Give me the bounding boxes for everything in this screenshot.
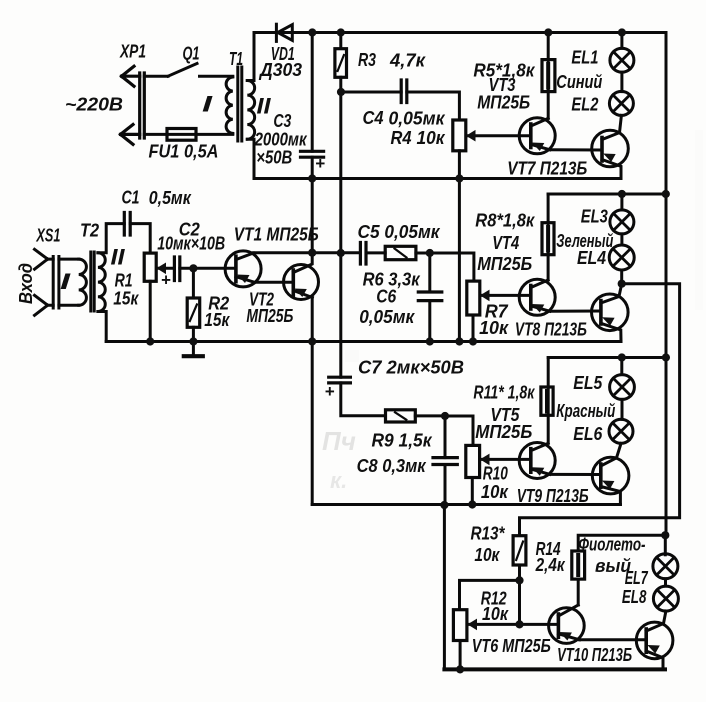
transistor VT2 <box>284 265 319 300</box>
emitter arrow VT5 <box>532 467 545 476</box>
capacitor C3 bottom lead <box>311 157 314 178</box>
wire violet feed from EL4 node <box>520 284 680 536</box>
wire channel3 top rail <box>548 356 666 359</box>
wire node92 to C4 <box>341 91 401 94</box>
svg-text:T1: T1 <box>229 49 243 69</box>
capacitor C1 <box>124 213 130 236</box>
transistor VT4 <box>519 279 555 315</box>
emitter arrow VT10 <box>647 645 660 654</box>
svg-text:Вход: Вход <box>16 263 36 304</box>
wire C7 to R9 <box>341 383 386 416</box>
wire XP1 to fuse <box>144 133 167 136</box>
transistor VT10 <box>636 622 673 659</box>
svg-text:С5 0,05мк: С5 0,05мк <box>358 222 441 242</box>
diode VD1 cathode bar <box>275 24 278 41</box>
svg-text:R3: R3 <box>358 50 376 70</box>
transformer T1 core <box>238 67 242 141</box>
transformer T1 primary winding <box>226 77 233 133</box>
resistor R2 lead <box>192 268 195 298</box>
potentiometer R7 <box>467 281 480 315</box>
svg-text:VT8 П213Б: VT8 П213Б <box>515 320 587 340</box>
svg-text:FU1 0,5А: FU1 0,5А <box>149 142 219 162</box>
transistor VT7 <box>592 130 629 167</box>
svg-text:С8 0,3мк: С8 0,3мк <box>357 456 427 476</box>
resistor R5 <box>542 60 555 92</box>
svg-text:МП25Б: МП25Б <box>477 254 532 274</box>
ground <box>192 342 195 356</box>
resistor R8 <box>542 223 554 255</box>
wire right main vertical <box>665 33 668 536</box>
wire violet lamps feed <box>578 535 665 551</box>
svg-text:EL4: EL4 <box>577 248 606 268</box>
svg-text:XS1: XS1 <box>36 226 61 246</box>
svg-text:10к: 10к <box>479 318 509 338</box>
wire EL8 to VT10 collector <box>664 610 667 613</box>
wiper arrow R4 <box>466 130 476 142</box>
svg-text:15к: 15к <box>113 288 139 308</box>
wire bottom rail channel4 <box>444 667 665 671</box>
svg-text:×50В: ×50В <box>256 147 292 167</box>
wire R4 bottom to rail <box>458 151 461 342</box>
wire R10 bottom to rail <box>471 478 474 505</box>
svg-text:XP1: XP1 <box>119 42 146 62</box>
wire R1 wiper to C2 <box>158 267 174 270</box>
svg-text:С7 2мк×50В: С7 2мк×50В <box>358 357 464 377</box>
lamp EL7 <box>664 535 667 555</box>
transistor VT5 <box>519 443 555 479</box>
svg-text:10мк×10В: 10мк×10В <box>157 234 225 254</box>
potentiometer R4 <box>453 120 466 151</box>
svg-text:VT10 П213Б: VT10 П213Б <box>557 645 632 665</box>
svg-text:Красный: Красный <box>556 401 615 421</box>
emitter arrow VT9 <box>602 481 615 490</box>
svg-text:Синий: Синий <box>556 72 602 92</box>
svg-text:0,5мк: 0,5мк <box>149 188 192 208</box>
resistor R13 <box>513 536 526 565</box>
wire R3 bottom to node <box>339 77 342 253</box>
resistor R5 lead <box>547 33 550 119</box>
transistor VT8 <box>592 294 629 331</box>
svg-text:10к: 10к <box>481 482 509 502</box>
svg-text:R1: R1 <box>115 270 133 290</box>
svg-text:Фиолето-: Фиолето- <box>579 535 646 555</box>
transformer T2 core <box>91 252 94 311</box>
emitter arrow VT8 <box>602 317 615 326</box>
emitter arrow VT6 <box>559 632 572 641</box>
emitter arrow VT3 <box>532 143 545 152</box>
lamp EL1 <box>620 33 623 49</box>
resistor R3 <box>335 49 347 78</box>
resistor R11 lead <box>547 358 550 444</box>
svg-text:+: + <box>315 154 325 173</box>
wire VT1 emitter to VT2 base <box>254 281 293 284</box>
svg-text:10к: 10к <box>482 604 509 624</box>
transformer T2 secondary winding <box>98 253 105 312</box>
wire R9 node to R10 <box>445 416 473 445</box>
wire VT6 emitter to VT10 base <box>580 638 647 641</box>
svg-text:Пч: Пч <box>322 426 356 456</box>
svg-text:II: II <box>111 245 126 270</box>
resistor R14 <box>572 551 585 579</box>
svg-text:EL1: EL1 <box>571 47 598 67</box>
wire bottom rail channel3 <box>312 503 620 506</box>
emitter arrow VT7 <box>603 154 616 163</box>
svg-text:0,05мк: 0,05мк <box>389 109 446 129</box>
svg-text:Q1: Q1 <box>183 44 200 64</box>
resistor R8 lead <box>547 194 550 280</box>
lamp EL6 <box>621 399 624 419</box>
wire T2 secondary top lead <box>98 224 124 253</box>
wire R9 to node <box>415 414 445 417</box>
svg-text:+: + <box>325 382 335 401</box>
capacitor C2 <box>174 257 179 281</box>
wire XP1 to switch <box>144 75 168 78</box>
svg-text:I: I <box>202 92 213 117</box>
wire R1 bottom to rail <box>149 281 152 341</box>
svg-text:R9 1,5к: R9 1,5к <box>372 430 433 450</box>
wire rail tie x312 <box>311 179 314 253</box>
svg-text:С4: С4 <box>363 108 384 128</box>
svg-text:II: II <box>257 93 272 118</box>
capacitor C4 <box>401 80 407 103</box>
svg-text:VT6 МП25Б: VT6 МП25Б <box>472 636 551 656</box>
svg-text:R4: R4 <box>391 128 412 148</box>
capacitor C5 <box>360 243 366 265</box>
wire switch to T1 primary <box>200 75 233 78</box>
resistor R9 <box>386 410 416 422</box>
svg-text:10к: 10к <box>474 545 500 565</box>
wire channel2 top rail <box>548 193 666 196</box>
connector XP1 <box>121 66 145 144</box>
svg-text:к.: к. <box>330 468 347 493</box>
svg-text:~220В: ~220В <box>65 95 123 115</box>
faint scan smudges <box>322 130 703 493</box>
svg-text:EL2: EL2 <box>571 94 598 114</box>
svg-text:EL7: EL7 <box>625 568 649 588</box>
svg-text:EL8: EL8 <box>622 587 647 607</box>
svg-text:VT1 МП25Б: VT1 МП25Б <box>234 225 319 245</box>
svg-text:МП25Б: МП25Б <box>477 93 530 113</box>
lamp EL4 <box>620 234 623 245</box>
wiper arrow R7 <box>480 290 490 302</box>
wire C1 to R1 top <box>130 224 150 254</box>
lamp EL5 <box>620 358 623 375</box>
wiper arrow R1 <box>157 263 167 275</box>
wire R2 bottom to rail <box>192 327 195 341</box>
capacitor C6 bottom lead <box>428 301 431 342</box>
wire EL4 to VT8 collector node <box>620 270 623 284</box>
svg-text:С6: С6 <box>376 286 397 306</box>
svg-text:R8*1,8к: R8*1,8к <box>475 210 535 230</box>
wire VT5 emitter to VT9 base <box>550 473 601 476</box>
svg-text:VT9 П213Б: VT9 П213Б <box>517 486 589 506</box>
svg-text:T2: T2 <box>80 220 99 240</box>
wire VT6 base node <box>520 623 559 626</box>
svg-text:МП25Б: МП25Б <box>246 306 293 326</box>
capacitor C6 lead <box>428 253 431 292</box>
resistor R6 <box>385 246 416 259</box>
potentiometer R10 <box>466 445 480 477</box>
wiper arrow R10 <box>480 454 490 466</box>
wire C2 to VT1 base <box>180 267 236 270</box>
svg-text:VT7 П213Б: VT7 П213Б <box>507 159 587 179</box>
wire bottom rail channel2 <box>106 340 621 343</box>
transistor VT3 <box>519 118 555 154</box>
svg-text:2,4к: 2,4к <box>535 555 566 575</box>
capacitor C8 lead <box>444 416 447 458</box>
capacitor C6 <box>418 292 442 301</box>
potentiometer R12 <box>453 610 467 641</box>
wire bottom rail channel1 <box>254 177 619 180</box>
wire C7 lead from bus <box>339 253 342 377</box>
wire collector bus y253 <box>253 253 474 281</box>
wire R12 bottom to rail <box>459 641 462 670</box>
transistor VT9 <box>592 457 629 494</box>
wire R13 node to R12 top <box>460 580 520 609</box>
svg-text:С1: С1 <box>122 188 140 208</box>
svg-text:МП25Б: МП25Б <box>475 422 532 442</box>
svg-text:+: + <box>161 271 171 290</box>
wire XS1 to T2 primary <box>59 259 79 305</box>
wire C4 to R4 <box>407 92 460 120</box>
svg-text:15к: 15к <box>204 310 230 330</box>
fuse FU1 <box>167 133 233 136</box>
lamp EL2 <box>620 72 623 91</box>
svg-text:С3: С3 <box>273 111 291 131</box>
wire VT2 emitter down to rails <box>311 298 314 505</box>
svg-text:EL5: EL5 <box>573 373 603 393</box>
resistor R11 <box>541 387 553 415</box>
wire C8 down rail tie <box>443 465 447 670</box>
transformer T2 primary winding <box>79 259 87 305</box>
svg-text:VT4: VT4 <box>492 233 519 253</box>
svg-text:I: I <box>60 269 71 294</box>
wiper arrow R12 <box>468 619 478 631</box>
svg-text:EL6: EL6 <box>573 424 603 444</box>
svg-text:0,05мк: 0,05мк <box>359 307 415 327</box>
svg-text:Д303: Д303 <box>258 60 302 80</box>
transistor VT1 <box>225 251 261 287</box>
svg-text:EL3: EL3 <box>581 207 608 227</box>
emitter and wiper arrowheads <box>157 130 660 654</box>
resistor R2 <box>187 298 200 327</box>
svg-text:R13*: R13* <box>471 524 506 544</box>
emitter arrow VT1 <box>237 275 250 284</box>
wire R12 wiper line <box>470 623 520 626</box>
resistor R3 top lead <box>339 33 342 49</box>
svg-text:R10: R10 <box>483 463 508 483</box>
wire R14 bottom to VT6 collector <box>577 579 580 605</box>
diode VD1 triangle <box>278 25 293 41</box>
emitter arrow VT4 <box>532 304 545 313</box>
emitter arrow VT2 <box>294 289 307 298</box>
potentiometer R1 <box>144 253 156 281</box>
svg-text:4,7к: 4,7к <box>389 51 426 71</box>
svg-text:R11* 1,8к: R11* 1,8к <box>473 382 535 402</box>
wire VT5 base to R10 wiper <box>482 458 531 461</box>
wire T2 secondary bottom lead <box>98 312 106 342</box>
wire VT3 base to R4 wiper <box>469 134 531 137</box>
capacitor C8 <box>433 458 457 465</box>
input connector XS1 <box>35 249 59 315</box>
switch Q1 <box>168 64 197 77</box>
transformer T1 secondary winding <box>247 81 254 140</box>
wire VT3 emitter to VT7 base <box>550 148 602 151</box>
wire R7 bottom to rail <box>472 315 475 342</box>
wire VT4 base to R7 wiper <box>482 294 531 297</box>
svg-text:10к: 10к <box>417 128 446 148</box>
capacitor C7 <box>329 377 351 383</box>
wire R13 bottom to node <box>518 565 521 624</box>
capacitor C3 top lead <box>311 33 314 152</box>
capacitor C3 plates <box>301 151 324 157</box>
wire T1 secondary top lead to diode row <box>247 33 254 81</box>
transistor VT6 <box>549 608 585 644</box>
wire top supply rail <box>254 31 666 34</box>
lamp EL3 <box>620 194 623 210</box>
wire VT4 emitter to VT8 base <box>550 310 601 313</box>
lamp EL8 <box>664 579 667 586</box>
wire T1 secondary bottom lead down <box>247 139 254 178</box>
